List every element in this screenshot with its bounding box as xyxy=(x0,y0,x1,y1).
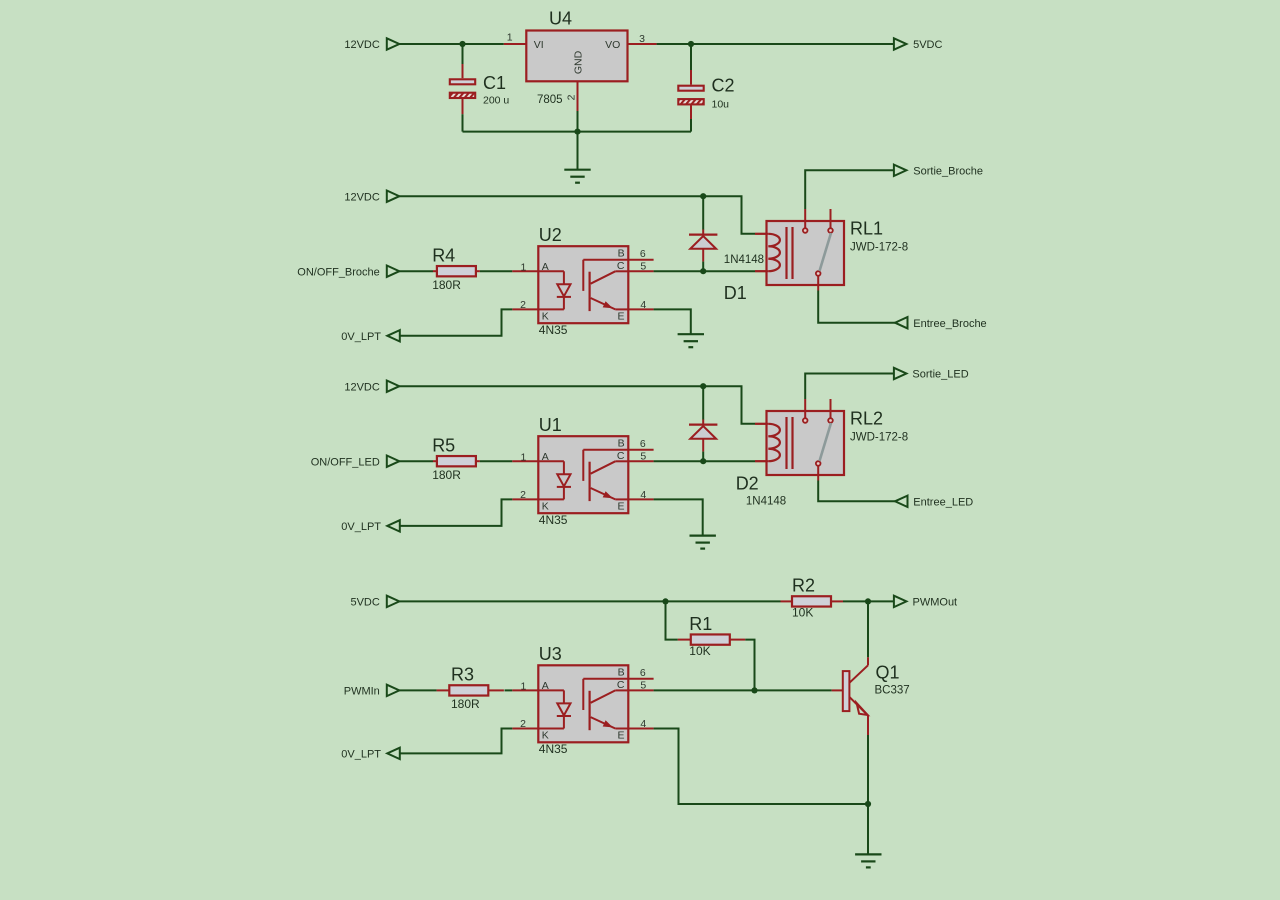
svg-text:2: 2 xyxy=(520,299,526,311)
wire R4 to U2 pin 1 xyxy=(480,270,512,272)
wire D2 anode to pin5 net xyxy=(702,452,704,462)
node junction at C1 top xyxy=(459,41,465,47)
svg-text:C1: C1 xyxy=(483,73,506,93)
wire R3 to U3 pin 1 xyxy=(505,689,513,691)
node junction D2 top xyxy=(700,383,706,389)
svg-text:1: 1 xyxy=(520,261,526,273)
optocoupler U2 (4N35) xyxy=(512,225,653,337)
voltage regulator U4 (7805) xyxy=(526,9,627,107)
svg-text:JWD-172-8: JWD-172-8 xyxy=(850,241,908,253)
svg-text:A: A xyxy=(542,680,549,692)
svg-text:12VDC: 12VDC xyxy=(344,381,380,393)
ground (section 4, Q1 emitter) xyxy=(855,853,881,855)
node junction emitter / pin 4 xyxy=(865,801,871,807)
terminal ON/OFF_LED xyxy=(387,456,400,467)
terminal 12VDC (section 2) xyxy=(387,191,400,202)
svg-text:1: 1 xyxy=(520,451,526,463)
resistor R1 xyxy=(678,614,746,658)
svg-text:B: B xyxy=(618,667,625,679)
wire 12VDC rail section 3 xyxy=(399,386,755,424)
svg-text:1: 1 xyxy=(520,680,526,692)
svg-text:GND: GND xyxy=(573,50,585,74)
terminal Entree_LED xyxy=(895,496,908,507)
svg-text:4: 4 xyxy=(640,299,646,311)
wire U1 pin 2 to 0V_LPT xyxy=(400,499,513,526)
svg-text:Entree_LED: Entree_LED xyxy=(913,497,973,509)
svg-text:10K: 10K xyxy=(792,606,813,620)
wire PWMIn to R3 xyxy=(399,689,436,691)
svg-text:7805: 7805 xyxy=(537,94,563,106)
svg-text:Entree_Broche: Entree_Broche xyxy=(913,318,986,330)
terminal 0V_LPT (section 4) xyxy=(387,748,400,759)
resistor R2 xyxy=(781,576,844,620)
terminal PWMIn xyxy=(387,685,400,696)
terminal 0V_LPT (section 3) xyxy=(387,520,400,531)
svg-text:6: 6 xyxy=(640,438,646,450)
ground (section 2, U2 emitter) xyxy=(678,333,704,335)
ground (section 3, U1 emitter) xyxy=(690,534,716,536)
svg-text:0V_LPT: 0V_LPT xyxy=(341,331,381,343)
svg-text:4N35: 4N35 xyxy=(539,513,568,527)
wire U4 GND to ground rail xyxy=(577,111,579,132)
wire U3 pin 2 to 0V_LPT xyxy=(400,729,513,754)
relay RL2 (JWD-172-8) xyxy=(755,399,908,481)
wire C1 bottom to ground rail xyxy=(463,99,578,132)
svg-text:2: 2 xyxy=(520,718,526,730)
wire relay RL1 NO contact to Entree_Broche xyxy=(818,291,895,323)
svg-text:VO: VO xyxy=(605,39,620,51)
svg-text:4N35: 4N35 xyxy=(539,742,568,756)
capacitor C2 xyxy=(678,76,734,111)
wire R5 to U1 pin 1 xyxy=(480,460,512,462)
U4 pin 1 stub xyxy=(504,32,527,44)
wire U2 pin 2 to 0V_LPT xyxy=(400,309,513,335)
wire C2 bottom to ground rail xyxy=(578,105,692,131)
svg-text:U2: U2 xyxy=(539,225,562,245)
svg-text:180R: 180R xyxy=(451,697,480,711)
svg-text:1: 1 xyxy=(507,32,513,44)
svg-text:K: K xyxy=(542,310,549,322)
svg-text:ON/OFF_Broche: ON/OFF_Broche xyxy=(297,266,380,278)
svg-text:K: K xyxy=(542,500,549,512)
svg-text:K: K xyxy=(542,729,549,741)
svg-text:5: 5 xyxy=(640,680,646,692)
wire coil lead red segments RL2 xyxy=(755,424,767,461)
relay RL1 (JWD-172-8) xyxy=(755,209,908,291)
svg-text:RL1: RL1 xyxy=(850,218,883,238)
terminal 5VDC (section 4) xyxy=(387,596,400,607)
wire U1 pin 5 to relay coil xyxy=(654,460,755,462)
svg-text:5: 5 xyxy=(640,451,646,463)
wire Q1 collector to PWMOut net xyxy=(867,601,869,657)
terminal PWMOut xyxy=(894,596,907,607)
svg-text:C: C xyxy=(617,450,625,462)
svg-text:0V_LPT: 0V_LPT xyxy=(341,749,381,761)
svg-text:2: 2 xyxy=(520,489,526,501)
wire D1 branch top xyxy=(702,196,704,229)
svg-text:10K: 10K xyxy=(689,644,710,658)
svg-text:Q1: Q1 xyxy=(876,662,900,682)
wire 5VDC rail to R2 xyxy=(399,600,780,602)
node junction at C2 top xyxy=(688,41,694,47)
node junction D1 anode / coil / pin 5 xyxy=(700,268,706,274)
wire U1 pin 4 to ground xyxy=(654,499,703,535)
svg-text:12VDC: 12VDC xyxy=(344,39,380,51)
svg-text:5VDC: 5VDC xyxy=(913,39,942,51)
wire C2 branch xyxy=(690,44,692,85)
svg-text:A: A xyxy=(542,261,549,273)
svg-text:R4: R4 xyxy=(432,246,455,266)
wire C1 branch xyxy=(462,44,464,78)
resistor R3 xyxy=(437,665,504,711)
svg-text:Sortie_LED: Sortie_LED xyxy=(912,369,968,381)
svg-text:C2: C2 xyxy=(712,76,735,96)
svg-text:R3: R3 xyxy=(451,665,474,685)
svg-text:180R: 180R xyxy=(432,468,461,482)
svg-text:180R: 180R xyxy=(432,278,461,292)
wire relay RL1 common to Sortie_Broche xyxy=(805,170,894,209)
svg-text:E: E xyxy=(617,500,624,512)
svg-text:ON/OFF_LED: ON/OFF_LED xyxy=(311,456,380,468)
svg-text:RL2: RL2 xyxy=(850,408,883,428)
wire relay RL2 NO contact to Entree_LED xyxy=(818,481,895,502)
terminal Sortie_LED xyxy=(894,368,907,379)
wire U2 pin 5 to relay coil xyxy=(654,270,755,272)
node junction R1 branch xyxy=(662,598,668,604)
svg-text:4: 4 xyxy=(640,718,646,730)
wire ground stem section 4 xyxy=(867,804,869,854)
svg-text:B: B xyxy=(618,438,625,450)
U4 pin 3 stub (VO) xyxy=(628,33,657,45)
ground (section 1) xyxy=(564,169,590,171)
terminal 0V_LPT (section 2) xyxy=(387,330,400,341)
transistor Q1 (BC337) xyxy=(832,657,910,735)
svg-text:10u: 10u xyxy=(712,99,730,111)
optocoupler U1 (4N35) xyxy=(512,415,653,527)
terminal Entree_Broche xyxy=(895,317,908,328)
diode D2 xyxy=(689,419,786,507)
wire ON/OFF_LED to R5 xyxy=(399,460,433,462)
wire VO to 5VDC xyxy=(657,43,894,45)
wire U3 pin 5 to Q1 base xyxy=(654,689,832,691)
svg-text:R1: R1 xyxy=(689,614,712,634)
wire R1 to base net xyxy=(745,640,754,691)
svg-text:5VDC: 5VDC xyxy=(350,597,379,609)
svg-text:U3: U3 xyxy=(539,644,562,664)
svg-text:R2: R2 xyxy=(792,576,815,596)
svg-text:C: C xyxy=(617,679,625,691)
svg-text:C: C xyxy=(617,260,625,272)
wire D2 branch top xyxy=(702,386,704,419)
terminal ON/OFF_Broche xyxy=(387,266,400,277)
svg-text:VI: VI xyxy=(534,39,544,51)
svg-text:A: A xyxy=(542,451,549,463)
wire D1 anode to pin5 net xyxy=(702,262,704,272)
capacitor C1 xyxy=(450,73,510,106)
resistor R4 xyxy=(432,246,480,292)
wire R2 to PWMOut xyxy=(843,600,894,602)
svg-text:U1: U1 xyxy=(539,415,562,435)
diode D1 xyxy=(689,229,764,303)
svg-text:12VDC: 12VDC xyxy=(344,191,380,203)
svg-text:B: B xyxy=(618,248,625,260)
svg-text:D2: D2 xyxy=(736,474,759,494)
svg-text:E: E xyxy=(617,310,624,322)
terminal Sortie_Broche xyxy=(894,165,907,176)
optocoupler U3 (4N35) xyxy=(512,644,653,756)
wire coil lead red segments xyxy=(755,234,767,271)
wire 12VDC rail section 2 xyxy=(399,196,755,234)
wire relay RL2 common to Sortie_LED xyxy=(805,374,894,400)
svg-text:4N35: 4N35 xyxy=(539,323,568,337)
svg-text:6: 6 xyxy=(640,667,646,679)
terminal 12VDC (input, section 1) xyxy=(387,38,400,49)
node junction ground rail xyxy=(574,129,580,135)
node junction D1 top xyxy=(700,193,706,199)
svg-text:5: 5 xyxy=(640,261,646,273)
svg-text:200 u: 200 u xyxy=(483,95,509,107)
terminal 5VDC (output of regulator) xyxy=(894,38,907,49)
svg-text:D1: D1 xyxy=(724,283,747,303)
wire 12VDC to U4 VI xyxy=(399,43,504,45)
svg-text:3: 3 xyxy=(639,33,645,45)
svg-text:BC337: BC337 xyxy=(875,684,910,696)
resistor R5 xyxy=(432,436,480,482)
svg-text:2: 2 xyxy=(566,94,578,100)
svg-text:E: E xyxy=(617,729,624,741)
node junction D2 anode / coil / pin 5 xyxy=(700,458,706,464)
node junction R1 / base xyxy=(751,687,757,693)
svg-text:PWMIn: PWMIn xyxy=(344,686,380,698)
svg-text:JWD-172-8: JWD-172-8 xyxy=(850,431,908,443)
wire R1 branch xyxy=(666,601,678,639)
svg-text:4: 4 xyxy=(640,489,646,501)
wire U2 pin 4 to ground xyxy=(654,309,691,334)
svg-text:U4: U4 xyxy=(549,9,572,29)
svg-text:6: 6 xyxy=(640,248,646,260)
U4 pin 2 stub (GND) xyxy=(566,81,578,111)
svg-text:1N4148: 1N4148 xyxy=(746,495,786,507)
node junction collector / PWMOut xyxy=(865,598,871,604)
wire ground stem xyxy=(577,132,579,170)
wire U3 pin 4 to emitter net xyxy=(654,729,868,805)
svg-text:R5: R5 xyxy=(432,436,455,456)
svg-text:1N4148: 1N4148 xyxy=(724,254,764,266)
wire ON/OFF_Broche to R4 xyxy=(399,270,433,272)
svg-text:Sortie_Broche: Sortie_Broche xyxy=(913,166,983,178)
svg-text:PWMOut: PWMOut xyxy=(913,597,958,609)
terminal 12VDC (section 3) xyxy=(387,381,400,392)
wire Q1 emitter to ground net xyxy=(867,735,869,804)
svg-text:0V_LPT: 0V_LPT xyxy=(341,521,381,533)
